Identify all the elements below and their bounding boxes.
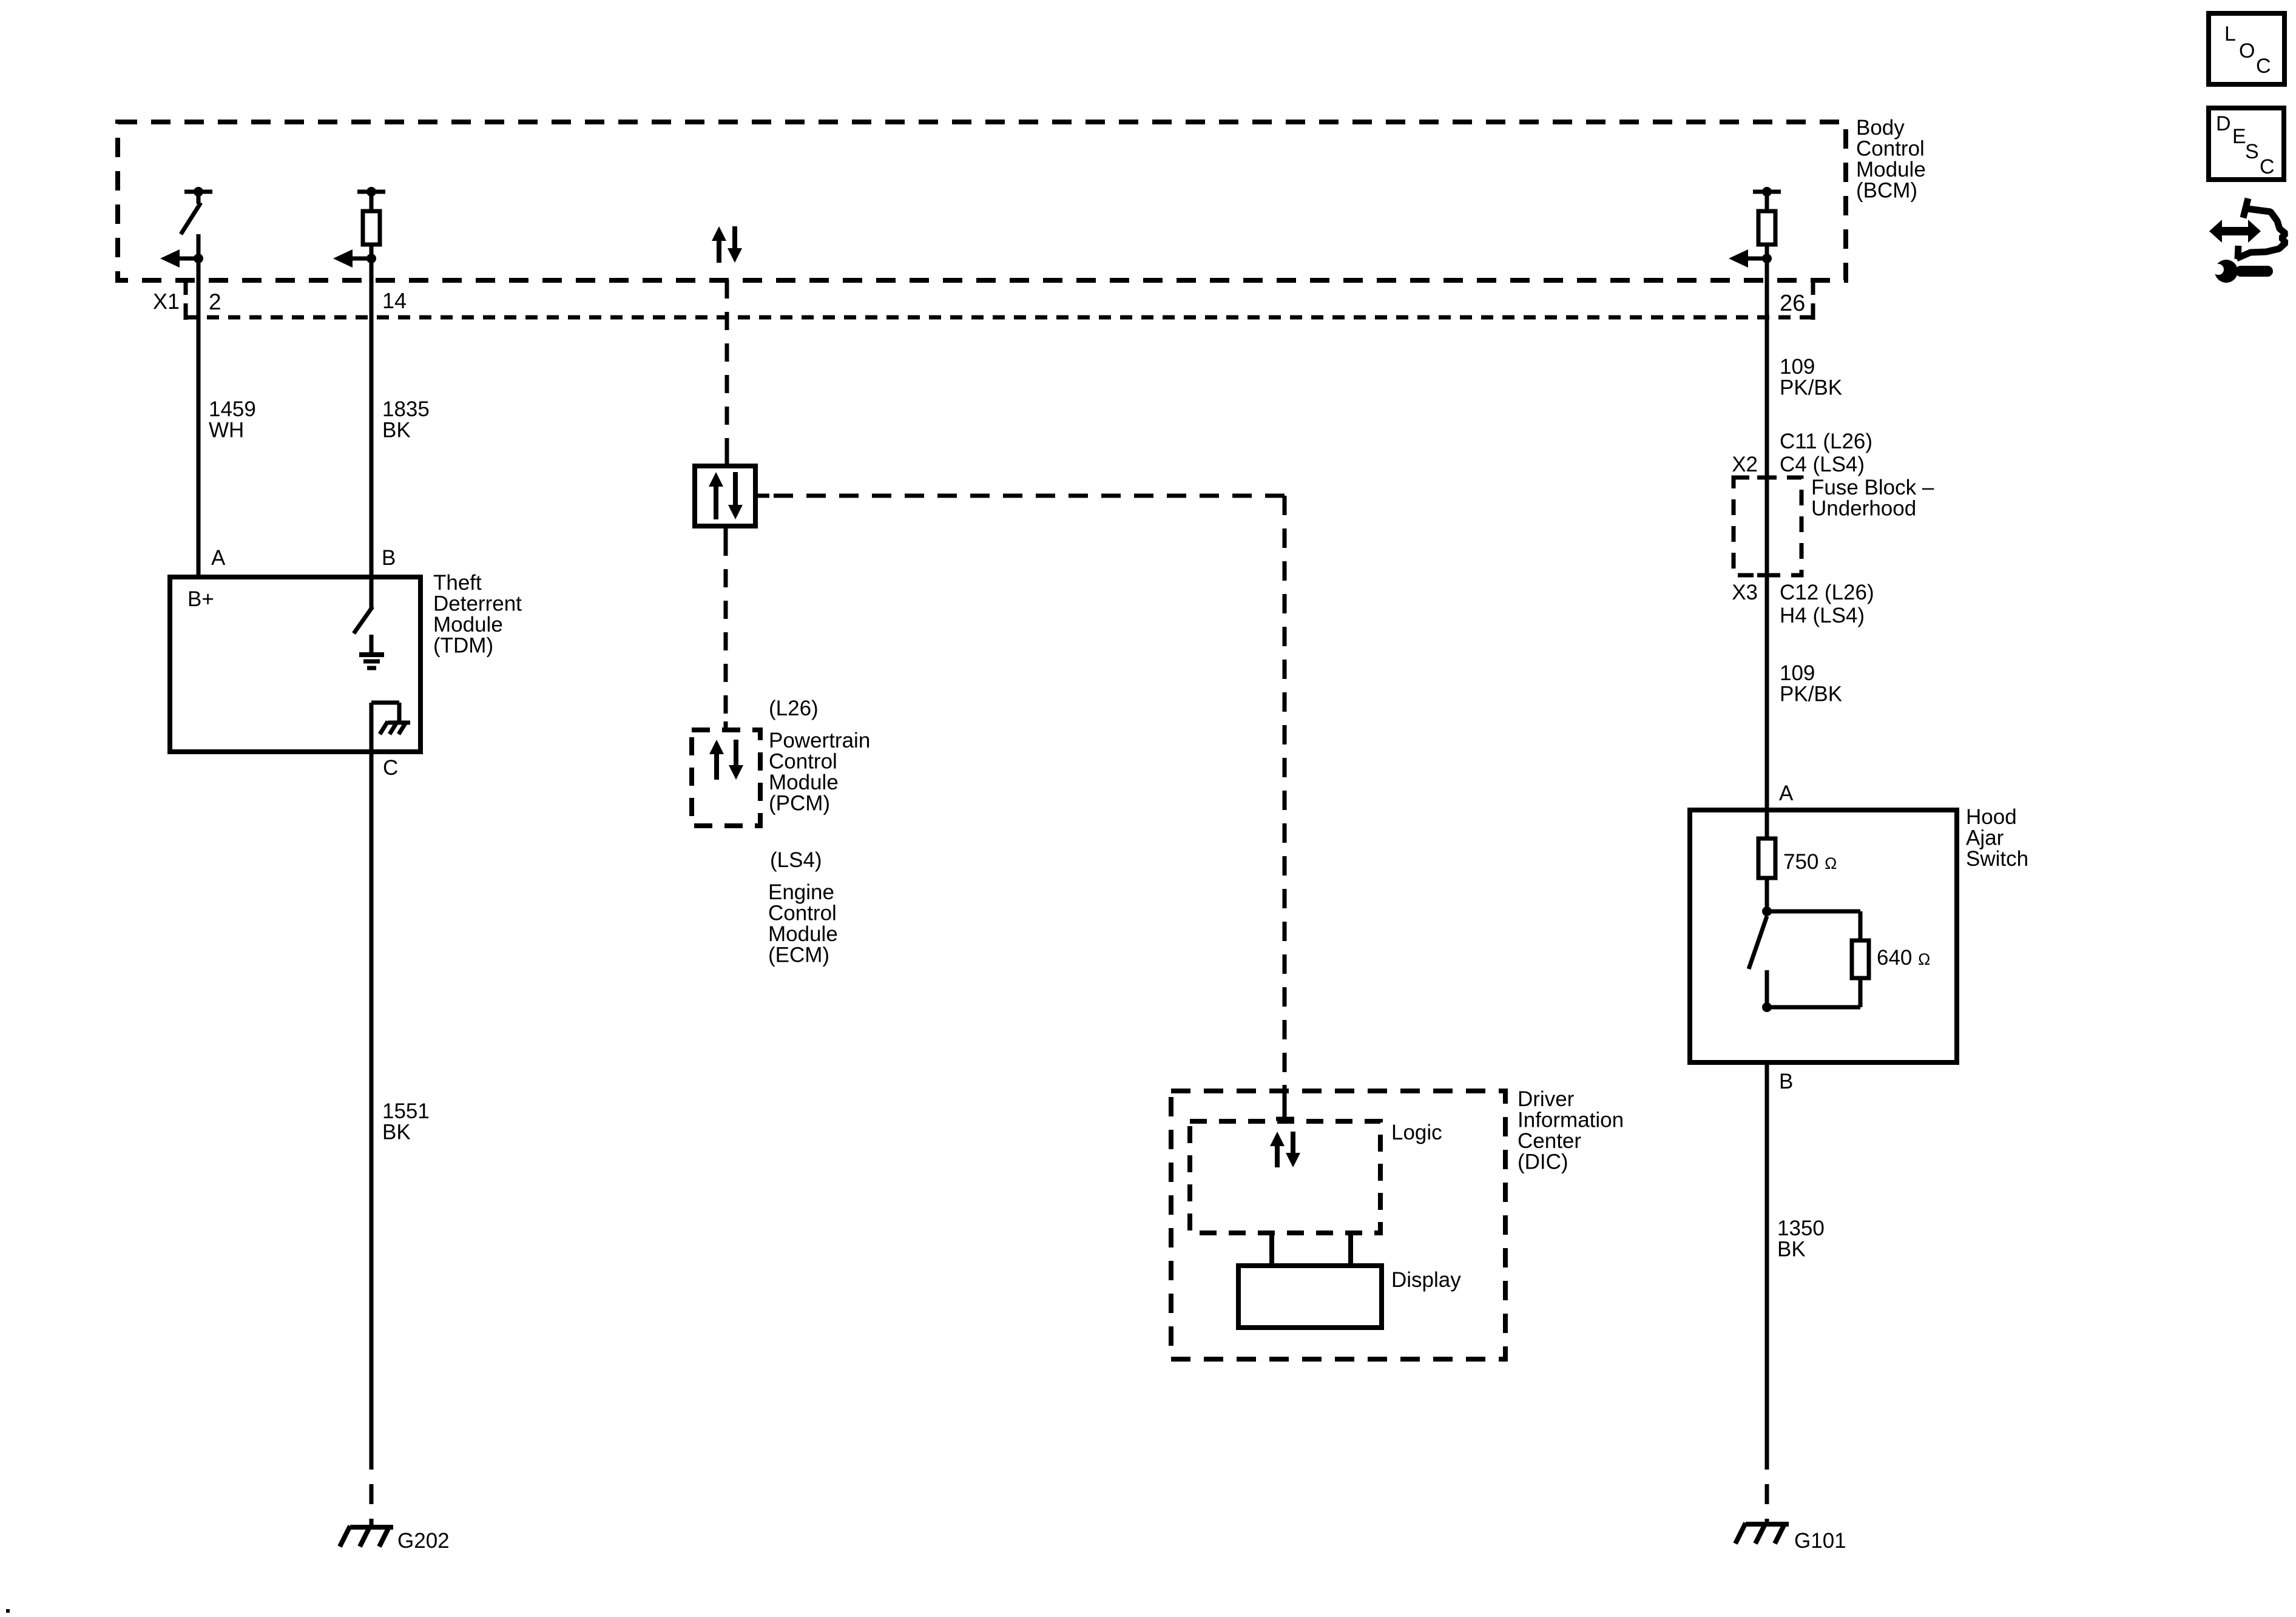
legend icon box DESC xyxy=(2209,108,2284,180)
connector tick at pin 26 xyxy=(1811,282,1815,295)
svg-text:S: S xyxy=(2245,140,2259,163)
stub right of junction box xyxy=(755,494,769,498)
svg-text:Fuse Block –Underhood: Fuse Block –Underhood xyxy=(1811,476,1934,521)
svg-text:C4 (LS4): C4 (LS4) xyxy=(1780,453,1865,476)
ground G101 symbol xyxy=(1746,1522,1789,1527)
serial data arrows inside BCM xyxy=(717,238,721,263)
dashed wire end at G202 xyxy=(370,1450,374,1527)
svg-text:2: 2 xyxy=(209,289,221,314)
chassis ground symbol inside TDM xyxy=(388,721,410,725)
svg-text:B+: B+ xyxy=(187,587,214,611)
logic box inside DIC dashed outline xyxy=(1190,1121,1380,1233)
ground G202 symbol xyxy=(350,1525,393,1530)
svg-text:C: C xyxy=(2256,55,2271,78)
dashed wire end at G101 xyxy=(1765,1450,1769,1524)
wire 109 PK/BK from fuse block to hood ajar switch pin A xyxy=(1765,575,1769,839)
resistor inside BCM on pin 26 xyxy=(1753,190,1781,194)
module box PCM dashed outline xyxy=(692,730,760,826)
wire 1350 BK from hood ajar switch pin B to ground G101 xyxy=(1765,1062,1769,1450)
serial data arrows inside junction box xyxy=(714,484,718,519)
switch blade inside hood ajar switch xyxy=(1749,916,1767,969)
svg-text:X2: X2 xyxy=(1732,453,1758,476)
svg-text:A: A xyxy=(1779,781,1794,805)
svg-text:(L26): (L26) xyxy=(769,697,819,720)
svg-text:B: B xyxy=(1779,1070,1793,1093)
dashed serial data wire from junction box right to DIC corner xyxy=(769,494,1285,498)
dashed serial data wire from junction box down to PCM xyxy=(724,538,728,721)
component box Theft Deterrent Module (TDM) xyxy=(170,577,420,752)
parallel branch with 640 ohm resistor xyxy=(1767,910,1860,914)
svg-text:G202: G202 xyxy=(397,1529,450,1553)
display box inside DIC xyxy=(1238,1266,1382,1328)
wire 109 PK/BK from BCM pin 26 down to fuse block xyxy=(1765,245,1769,480)
wrench of hood icon xyxy=(2213,260,2273,283)
wire 1551 BK from TDM pin C to ground G202 xyxy=(370,752,374,1450)
svg-text:B: B xyxy=(382,546,396,570)
junction node lower xyxy=(1762,1002,1772,1012)
legend icon box LOC xyxy=(2209,13,2284,84)
svg-text:Display: Display xyxy=(1391,1268,1461,1292)
svg-text:A: A xyxy=(211,546,226,570)
signal direction arrow on pin 2 wire xyxy=(178,257,198,261)
svg-text:26: 26 xyxy=(1780,291,1805,316)
module box BCM (Body Control Module) dashed outline xyxy=(118,122,1846,280)
svg-text:C12 (L26): C12 (L26) xyxy=(1780,581,1874,604)
junction node upper xyxy=(1762,906,1772,916)
svg-text:C: C xyxy=(2260,155,2275,178)
resistor 750 ohm xyxy=(1758,839,1775,878)
svg-text:X3: X3 xyxy=(1732,581,1758,604)
fuse block underhood dashed box xyxy=(1734,478,1801,575)
serial data wire entering DIC, terminal bar xyxy=(1283,1085,1287,1119)
earth ground symbol inside TDM xyxy=(370,635,374,655)
svg-text:G101: G101 xyxy=(1794,1529,1846,1553)
wire through fuse block xyxy=(1765,480,1769,575)
switch inside TDM on pin B wire xyxy=(370,577,374,608)
wire pin 2 from BCM switch down to TDM pin A xyxy=(197,234,201,577)
svg-text:O: O xyxy=(2239,39,2255,62)
svg-text:E: E xyxy=(2232,125,2246,148)
svg-text:D: D xyxy=(2216,112,2231,135)
svg-text:(LS4): (LS4) xyxy=(770,848,822,872)
stray period bottom left xyxy=(6,1609,10,1613)
resistor 640 ohm xyxy=(1852,940,1869,978)
svg-text:L: L xyxy=(2224,22,2236,46)
svg-text:C: C xyxy=(383,756,398,780)
svg-text:Logic: Logic xyxy=(1391,1121,1442,1144)
signal direction arrow on pin 26 wire xyxy=(1747,257,1767,261)
serial data arrows inside PCM xyxy=(714,752,719,780)
svg-text:EngineControlModule(ECM): EngineControlModule(ECM) xyxy=(768,880,838,967)
stub below junction box xyxy=(724,526,728,538)
connector dotted line (in-line harness connector) xyxy=(186,316,1813,320)
switch S inside BCM on pin 2 xyxy=(184,190,212,194)
svg-text:14: 14 xyxy=(382,288,407,313)
dashed serial data wire from BCM down to data link junction xyxy=(725,280,729,459)
module box Driver Information Center (DIC) dashed outline xyxy=(1171,1091,1505,1359)
wire pin 14 from BCM resistor down to TDM pin B xyxy=(370,245,374,577)
svg-text:H4 (LS4): H4 (LS4) xyxy=(1780,604,1865,627)
component box Hood Ajar Switch xyxy=(1690,810,1957,1062)
internal chassis ground branch of pin C inside TDM xyxy=(370,703,374,752)
serial data arrows inside DIC logic box xyxy=(1275,1144,1280,1167)
resistor inside BCM on pin 14 xyxy=(357,190,385,194)
double headed arrow of hood icon xyxy=(2209,220,2261,243)
wire between 750 ohm resistor and switch xyxy=(1765,878,1769,911)
signal direction arrow on pin 14 wire xyxy=(351,257,371,261)
legs between logic box and display xyxy=(1269,1233,1274,1266)
switch fixed contact xyxy=(1765,970,1769,1007)
svg-text:C11 (L26): C11 (L26) xyxy=(1780,430,1872,453)
connector X1 tick xyxy=(184,282,188,295)
legend icon: hood open with double arrow and wrench xyxy=(2237,198,2286,259)
dashed serial data wire down to DIC xyxy=(1283,496,1287,1085)
svg-text:X1: X1 xyxy=(153,289,180,314)
serial data junction box xyxy=(695,466,755,526)
